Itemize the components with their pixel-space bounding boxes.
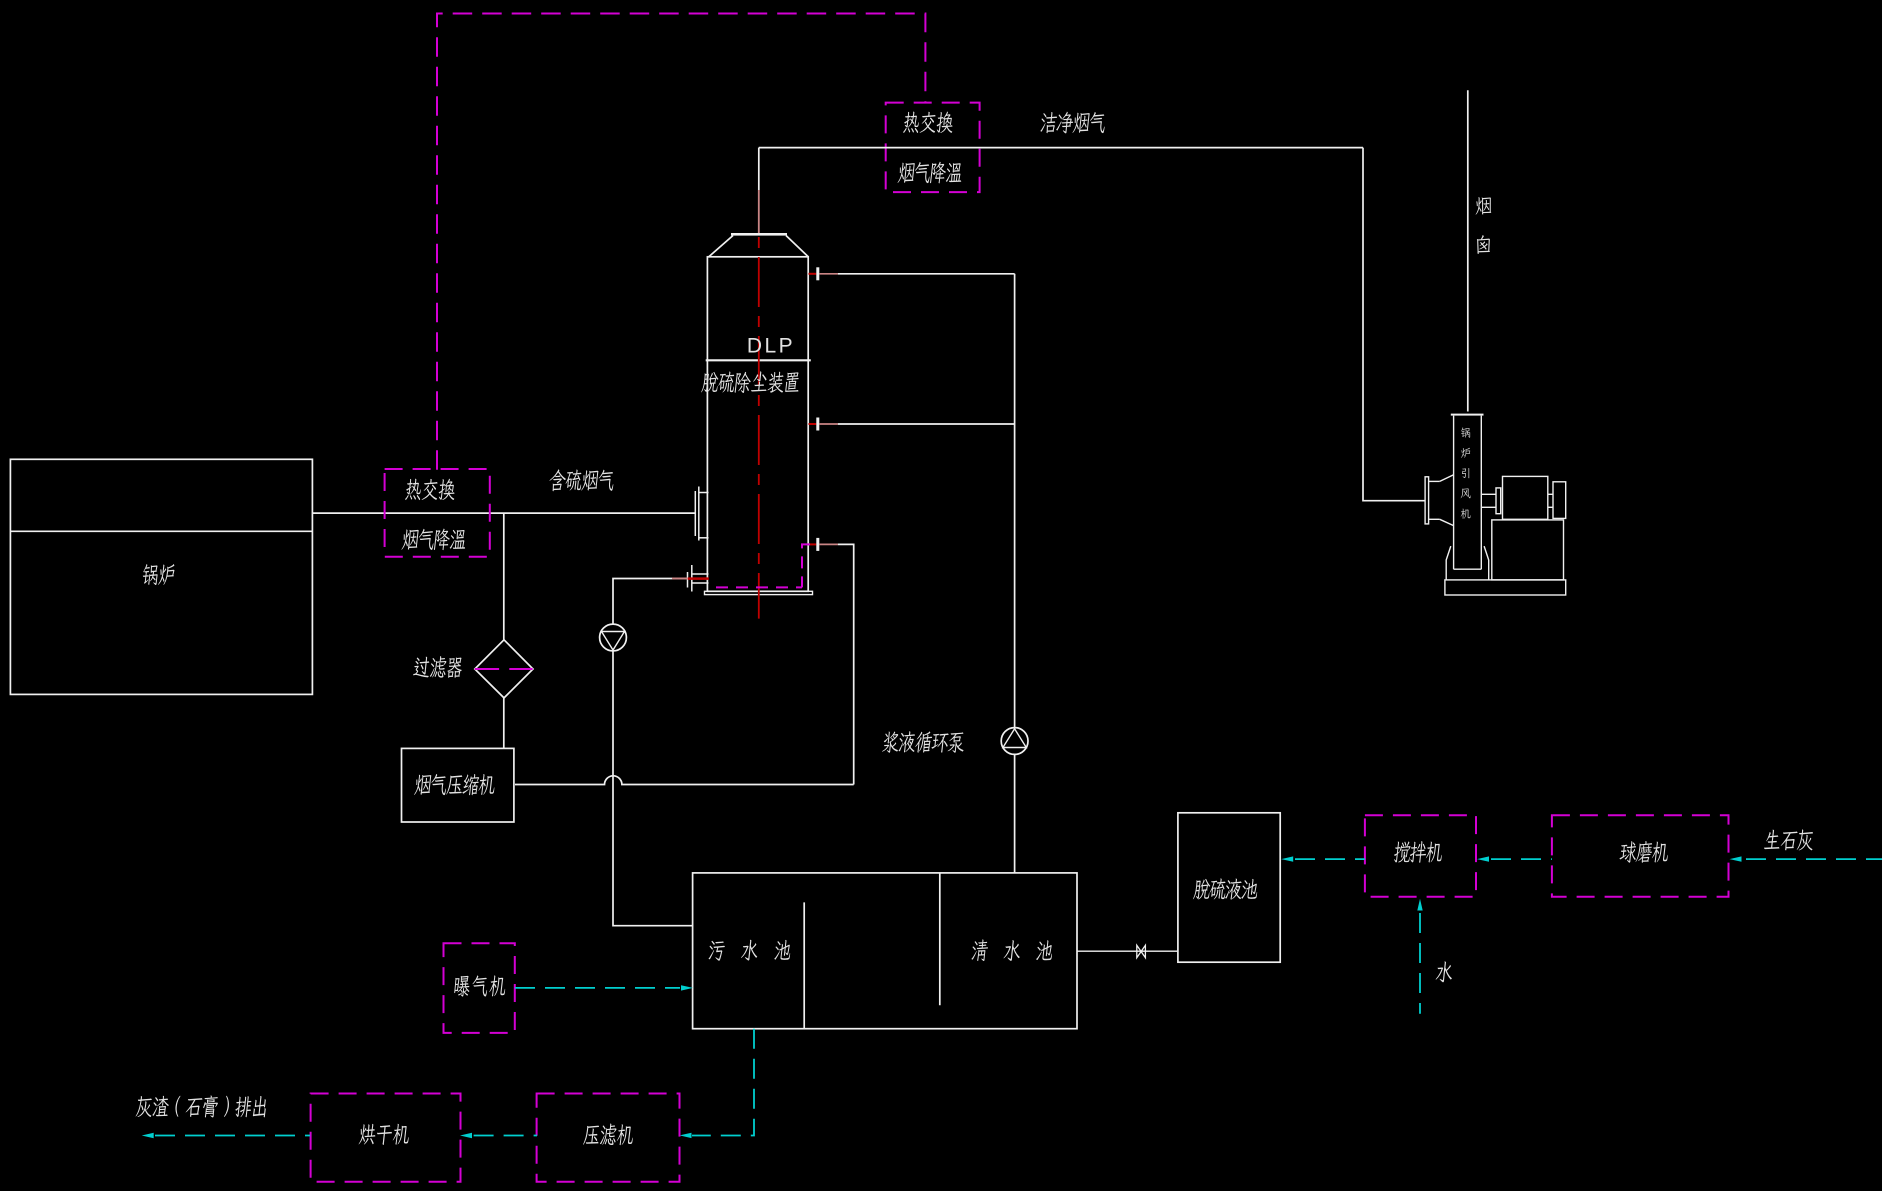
filter 过滤器 diamond	[475, 640, 533, 698]
wire: salmon segment above tower top	[758, 190, 760, 233]
pool divider 1	[803, 902, 805, 1028]
cyan wire: sewage pool bottom to filter press	[692, 1029, 754, 1136]
dryer 烘干机 (magenta dashed box)	[311, 1094, 461, 1182]
tower internal divider line	[706, 359, 811, 361]
chimney line 烟囱	[1467, 90, 1469, 411]
wire: pump P2 to pool top	[1014, 754, 1016, 873]
wire: compressor discharge to tower nozzle N3 riser (with hop)	[515, 776, 854, 785]
red stub into lower left flange	[688, 577, 709, 580]
wire: clean gas down-comer to fan	[1363, 148, 1425, 501]
label 浆液循环泵	[882, 731, 966, 752]
tower left mid flange	[695, 487, 708, 541]
mixer 搅拌机 (magenta dashed box)	[1365, 815, 1476, 897]
pool divider 2	[939, 873, 941, 1005]
wire: right header down from N1/N2 to pump P2	[1014, 274, 1016, 728]
label 热交换 (HX2)	[405, 479, 456, 500]
valve (bowtie)	[1137, 945, 1146, 957]
cyan wire: aerator to sewage pool (arrow right)	[515, 987, 680, 989]
wire: pump P1 down to sewage pool	[613, 651, 693, 926]
label 生石灰 quicklime	[1764, 829, 1815, 850]
tower nozzle N3 (lower right) flange	[809, 543, 817, 545]
filter press 压滤机 (magenta dashed box)	[537, 1094, 680, 1182]
wire: clean flue gas line from tower top through HX1 to right riser	[759, 147, 1363, 149]
tower lower left flange	[688, 565, 709, 592]
tower nozzle N1 (top right) flange	[809, 273, 817, 275]
settling pools 污水池/清水池	[693, 873, 1077, 1029]
boiler induced draft fan 锅炉引风机	[1425, 414, 1566, 595]
label 脱硫液池	[1193, 878, 1259, 899]
label 烟气降温 (HX1)	[898, 162, 964, 184]
pump P2 浆液循环泵 slurry circulation pump	[1001, 728, 1028, 755]
label 烘干机	[359, 1124, 411, 1145]
cyan wire: water to mixer (arrow up)	[1419, 913, 1421, 1014]
heat exchanger HX2 热交换/烟气降温 (magenta dashed box)	[385, 469, 490, 557]
wire: magenta dashed recirculation loop (HX2 top -> up -> right -> HX1 top)	[437, 14, 925, 470]
wire: nozzle N2 to right header	[838, 423, 1015, 425]
label 灰渣（石膏）排出	[135, 1096, 267, 1118]
label 水 water	[1435, 961, 1453, 982]
label 曝气机	[453, 975, 506, 996]
label 污水池 sewage pool	[708, 940, 791, 961]
label 热交换 (HX1)	[903, 111, 954, 132]
tower red centerline	[758, 237, 760, 619]
label 锅炉引风机 (vertical)	[1461, 427, 1471, 518]
wire: filter to compressor	[503, 697, 505, 748]
wire: boiler flue gas to tower (through HX2)	[312, 512, 695, 514]
label 含硫烟气 sulfur flue gas	[548, 469, 615, 491]
wire: nozzle N1 to right header	[838, 273, 1015, 275]
ball mill 球磨机 (magenta dashed box)	[1552, 815, 1729, 897]
wire: riser from tower top to clean gas line	[758, 148, 760, 190]
wire: clean pool to desulfurization tank with valve	[1077, 950, 1178, 952]
tower base plate	[705, 591, 813, 594]
magenta line through filter	[475, 668, 499, 670]
cyan wire: filter press to dryer (arrow left)	[474, 1135, 537, 1137]
cyan wire: dryer to discharge (arrow left)	[155, 1135, 310, 1137]
cyan wire: mixer to desulf tank (arrow left)	[1295, 858, 1365, 860]
wire: nozzle N3 to compressor riser	[838, 544, 854, 784]
label 搅拌机	[1393, 841, 1443, 863]
pump P1 (tower bottom outlet)	[600, 624, 627, 651]
label 锅炉	[142, 564, 176, 585]
label 清水池 clean water pool	[971, 939, 1053, 961]
label 过滤器 filter	[413, 656, 463, 678]
svg-text:DLP: DLP	[747, 335, 795, 358]
label 脱硫除尘装置	[701, 371, 800, 393]
label 压滤机	[583, 1124, 634, 1146]
heat exchanger HX1 热交换/烟气降温 (top, magenta dashed box)	[886, 103, 980, 193]
label 烟气压缩机	[414, 774, 496, 795]
DLP desulfurization tower body	[707, 233, 808, 591]
boiler 锅炉	[10, 459, 312, 694]
label 烟囱 chimney	[1476, 197, 1492, 254]
wire: tower outlet to pump P1	[613, 579, 672, 625]
label 烟气降温 (HX2)	[401, 529, 467, 551]
desulfurization liquid tank 脱硫液池	[1178, 813, 1280, 962]
label 洁净烟气 clean flue gas	[1040, 112, 1106, 134]
cyan wire: quicklime feed to ball mill (arrow left)	[1746, 858, 1882, 860]
magenta spray header elbow inside tower	[802, 544, 810, 587]
cyan wire: ball mill to mixer (arrow left)	[1491, 858, 1552, 860]
tower nozzle N2 (mid right) flange	[809, 423, 817, 425]
aerator 曝气机 (magenta dashed box)	[444, 943, 515, 1033]
label 球磨机	[1619, 841, 1669, 863]
wire: branch down to filter	[503, 513, 505, 640]
flue gas compressor 烟气压缩机	[402, 748, 514, 822]
